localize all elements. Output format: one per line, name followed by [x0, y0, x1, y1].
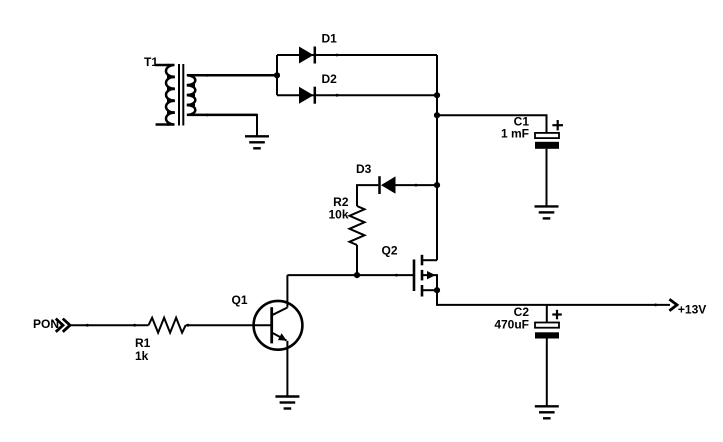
wire C1 to ground: [546, 149, 548, 207]
node C1 branch: [434, 112, 440, 118]
wire R2 to gate wire: [356, 245, 358, 275]
wire D1 branch: [277, 54, 437, 56]
transformer T1: [155, 64, 277, 126]
svg-text:1k: 1k: [135, 349, 149, 363]
diode D1: [299, 47, 315, 64]
resistor R1: [149, 318, 186, 333]
port +13V chevron: [669, 299, 677, 310]
svg-text:10k: 10k: [328, 207, 348, 221]
svg-text:D1: D1: [322, 32, 338, 46]
wire Q1 collector to Q2 gate: [287, 274, 413, 276]
resistor R2: [350, 206, 365, 245]
plus sign C2: [552, 310, 562, 320]
svg-text:470uF: 470uF: [494, 318, 529, 332]
diode D2: [299, 87, 315, 104]
svg-text:PON: PON: [33, 317, 59, 331]
wire D3 to R2: [357, 185, 378, 206]
diode D3: [380, 176, 396, 194]
wire D2 branch: [277, 94, 437, 96]
node D2-bus: [434, 92, 440, 98]
port PON chevrons: [56, 319, 70, 332]
ground C1: [535, 206, 559, 218]
ground C2: [535, 406, 559, 418]
node D3-bus: [434, 182, 440, 188]
wire Q1 emitter to ground: [286, 341, 288, 397]
wire Q2 source to output: [437, 290, 670, 305]
wire D3 branch: [396, 184, 438, 186]
wire R1 to Q1 base: [186, 324, 272, 326]
wire T1 secondary bottom to ground: [190, 115, 257, 136]
capacitor C2: [535, 323, 559, 339]
plus sign C1: [552, 120, 563, 130]
wire joint markers: [86, 54, 657, 327]
wire T1 secondary top to node: [190, 74, 277, 76]
ground T1: [245, 136, 269, 148]
svg-text:1 mF: 1 mF: [501, 127, 529, 141]
wire PON to R1: [69, 324, 149, 326]
wire C2 branch: [546, 305, 548, 323]
transistor Q1: [254, 301, 303, 350]
svg-text:D3: D3: [356, 162, 372, 176]
svg-text:D2: D2: [322, 72, 338, 86]
wire C2 to ground: [546, 338, 548, 406]
transistor Q2: [414, 255, 437, 297]
wire junction vertical D1-D2: [276, 55, 278, 95]
svg-text:Q2: Q2: [382, 244, 398, 258]
node Q2 source junction: [434, 287, 440, 293]
wire main bus vertical: [436, 55, 438, 260]
capacitor C1: [535, 133, 559, 149]
svg-text:T1: T1: [144, 55, 158, 69]
svg-text:+13V: +13V: [678, 303, 706, 317]
wire Q1 collector up: [286, 275, 288, 307]
node R2-gate junction: [354, 272, 360, 278]
svg-text:Q1: Q1: [232, 293, 248, 307]
ground Q1: [275, 397, 299, 409]
wire C1 branch: [437, 115, 547, 133]
node T1-D1-D2 junction: [274, 72, 280, 78]
